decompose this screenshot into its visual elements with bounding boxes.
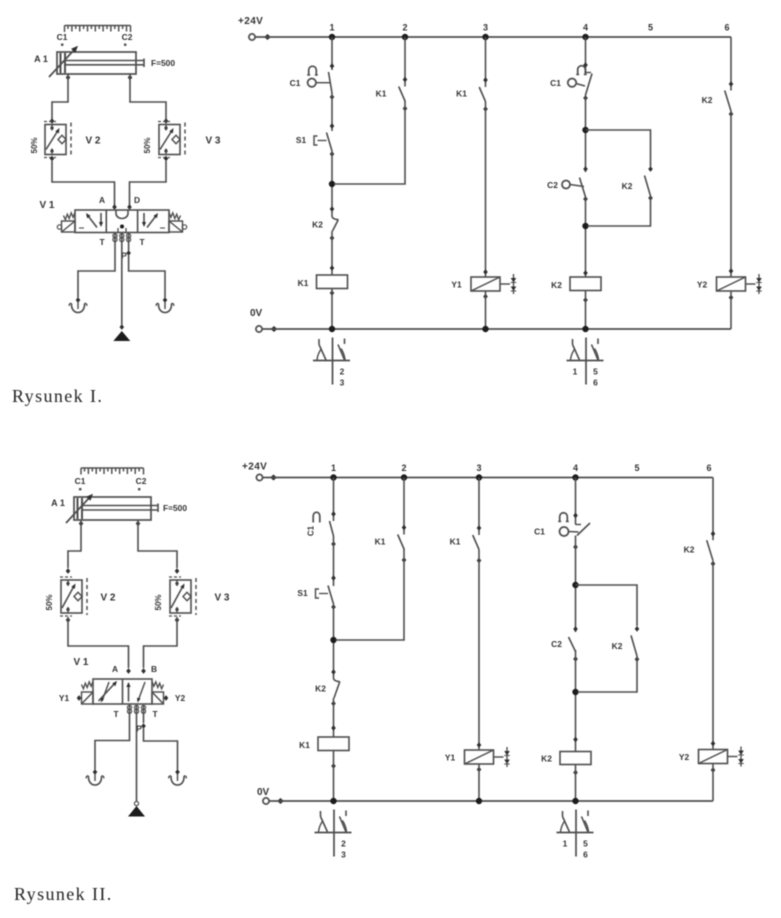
svg-text:C1: C1 <box>75 476 86 486</box>
svg-text:T: T <box>152 709 158 719</box>
relay coil K2 <box>570 277 601 291</box>
valve V1 port A connection <box>112 204 117 210</box>
0V terminal <box>256 326 262 332</box>
0V terminal <box>263 798 269 804</box>
svg-text:C1: C1 <box>550 78 561 88</box>
node K2 coil top <box>573 737 578 743</box>
node Y2 bottom <box>729 295 734 301</box>
node Y2 pilot (figure II) <box>164 695 169 701</box>
wire to right exhaust (figure II) <box>144 729 178 770</box>
port P connection <box>126 250 131 256</box>
svg-text:K2: K2 <box>612 641 623 651</box>
cylinder A1 body <box>57 52 136 74</box>
svg-text:F=500: F=500 <box>151 58 175 68</box>
node K1 contact bottom (column 3) <box>477 558 482 564</box>
node pressure source <box>120 324 125 330</box>
junction 0V rail column 3 <box>482 326 488 332</box>
relay contact K1 NO (column 3) <box>479 87 485 102</box>
node Y2 top <box>729 268 734 274</box>
node Y1 top <box>477 742 482 748</box>
svg-text:C1: C1 <box>307 525 316 536</box>
junction 0V rail column 3 <box>476 798 482 804</box>
svg-text:1: 1 <box>573 367 578 377</box>
valve V1 left return spring <box>64 213 76 220</box>
wire T right to exhaust <box>128 233 130 251</box>
wire T left to exhaust (figure II) <box>95 706 130 770</box>
wire P to pressure source (figure II) <box>136 706 138 802</box>
node K1 contact bottom (column 2) <box>402 557 407 563</box>
wire column 1 between C1 and S1 <box>331 93 333 131</box>
node C1 top (column 4) <box>583 62 588 68</box>
junction rail column 1 <box>329 34 335 40</box>
solenoid Y2 indicator <box>728 756 738 758</box>
limit switch C2 contact <box>580 178 586 198</box>
relay contact K2 NO (column 6) <box>725 91 731 112</box>
solenoid Y2 <box>699 750 728 764</box>
svg-text:2: 2 <box>341 839 346 849</box>
node C2 bottom <box>583 196 588 202</box>
pressure source triangle (figure II) <box>128 806 145 817</box>
node K2 bottom <box>330 235 335 241</box>
svg-text:K1: K1 <box>298 278 309 288</box>
node above V3 (figure II) <box>175 568 180 574</box>
svg-text:K1: K1 <box>376 89 387 99</box>
relay contact map under column 1 <box>333 810 335 857</box>
junction rail column 4 <box>572 474 578 480</box>
wire cylinder left port to valve V2 <box>52 74 68 119</box>
node K2 top <box>331 669 336 675</box>
flow control valve V3 (figure II) <box>170 580 191 613</box>
svg-text:V 1: V 1 <box>73 657 88 668</box>
svg-text:2: 2 <box>402 23 407 33</box>
wire T left to exhaust <box>78 233 115 298</box>
cylinder port left connection (figure II) <box>79 521 84 527</box>
svg-text:6: 6 <box>583 850 588 860</box>
svg-text:Rysunek I.: Rysunek I. <box>12 386 103 406</box>
svg-text:D: D <box>134 195 140 205</box>
svg-text:4: 4 <box>573 463 578 473</box>
wire column 1 lower <box>331 231 333 275</box>
node S1 bottom <box>330 151 335 157</box>
svg-text:C1: C1 <box>534 527 545 537</box>
svg-text:K1: K1 <box>299 740 310 750</box>
ruler scale above cylinder A1 (figure II) <box>81 468 144 475</box>
node Y1 pilot (figure II) <box>77 695 82 701</box>
wire column 3 middle <box>478 550 480 751</box>
wire cylinder right port to valve V3 (figure II) <box>138 520 177 568</box>
node C2 top <box>583 166 588 172</box>
node below V2 (figure II) <box>66 617 71 623</box>
svg-text:5: 5 <box>634 463 639 473</box>
relay contact K2 NO (column 5) <box>645 176 651 197</box>
wire to right exhaust <box>129 256 165 298</box>
node C1 top <box>330 63 335 69</box>
node Y1 top <box>483 269 488 275</box>
svg-text:T: T <box>113 709 119 719</box>
svg-text:0V: 0V <box>250 308 263 319</box>
limit switch C1 NC contact (column 4) <box>586 72 592 74</box>
node below V3 <box>164 156 169 162</box>
wire K1 coil to 0V <box>333 751 335 801</box>
node K2 coil bottom <box>573 770 578 776</box>
wire column 4 to branch junction <box>575 536 577 633</box>
directional valve V1 body (5/2, figure II) <box>93 679 152 704</box>
junction 0V rail column 1 <box>329 326 335 332</box>
wire column 5 back to column 4 <box>588 196 651 226</box>
node K2 contact bottom (column 5) <box>648 195 653 201</box>
relay contact K2 NC (column 1) <box>332 217 338 220</box>
limit switch C1 contact (column 1) <box>330 521 334 536</box>
junction rail column 3 <box>476 474 482 480</box>
wire Y2 to 0V <box>730 291 732 329</box>
svg-text:K2: K2 <box>541 754 552 764</box>
svg-text:2: 2 <box>340 367 345 377</box>
node below V3 (figure II) <box>175 617 180 623</box>
valve V1 right return spring (figure II) <box>152 682 164 689</box>
valve V1 left return spring (figure II) <box>82 682 94 689</box>
wire V3 to valve V1 port B (figure II) <box>144 617 178 668</box>
node C2 top <box>573 626 578 632</box>
node S1 bottom <box>331 604 336 610</box>
adjustment arrow through cylinder (figure II) <box>66 498 89 523</box>
valve V1 right position arrows <box>143 213 145 224</box>
node junction branch top <box>582 127 588 133</box>
wire Y2 to 0V <box>712 764 714 802</box>
cylinder A1 piston <box>60 53 62 73</box>
node C2 bottom <box>573 656 578 662</box>
pushbutton S1 contact <box>327 133 333 152</box>
node K2 contact bottom (column 6) <box>711 561 716 567</box>
svg-text:T: T <box>139 237 145 247</box>
svg-text:V 3: V 3 <box>214 593 229 604</box>
relay contact map under column 4 <box>585 338 587 385</box>
junction rail column 3 <box>482 34 488 40</box>
relay contact map under column 1 <box>332 338 334 385</box>
relay coil K1 <box>317 275 348 289</box>
flow control valve V3 <box>159 125 180 155</box>
valve V1 right position arrows (figure II) <box>128 684 130 702</box>
wire column 6 middle <box>730 111 732 277</box>
svg-text:0V: 0V <box>257 787 270 798</box>
svg-text:50%: 50% <box>30 137 39 153</box>
relay contact map under column 4 <box>575 810 577 857</box>
flow control valve V2 (figure II) <box>61 580 82 613</box>
svg-text:2: 2 <box>401 463 406 473</box>
junction 0V rail column 4 <box>582 326 588 332</box>
svg-text:A 1: A 1 <box>34 54 48 64</box>
wire T right upper (figure II) <box>143 706 145 723</box>
svg-text:6: 6 <box>724 23 729 33</box>
wire column 1 middle <box>333 604 335 679</box>
svg-text:Y2: Y2 <box>175 693 186 703</box>
valve V1 left position arrows <box>87 215 97 228</box>
valve V1 bottom port connections <box>113 234 117 238</box>
svg-text:50%: 50% <box>45 594 54 610</box>
valve V1 port B connection <box>127 204 132 210</box>
exhaust silencer right (figure II) <box>177 774 179 781</box>
node pressure source (figure II) <box>134 801 138 805</box>
node S1 top <box>330 123 335 129</box>
node junction column 1/2 <box>330 637 336 643</box>
wire cylinder left port to valve V2 (figure II) <box>68 520 81 568</box>
svg-text:C1: C1 <box>290 78 301 88</box>
svg-text:A 1: A 1 <box>51 498 65 508</box>
svg-text:1: 1 <box>563 839 568 849</box>
adjustment arrow through cylinder <box>49 50 74 77</box>
svg-text:Y1: Y1 <box>59 693 70 703</box>
limit switch C2 contact <box>569 637 576 652</box>
node left exhaust (figure II) <box>93 769 98 775</box>
cylinder port right connection (figure II) <box>136 521 141 527</box>
node K2 top <box>330 206 335 212</box>
limit switch C1 NC contact (column 4) <box>576 524 582 526</box>
relay coil K2 <box>560 752 591 765</box>
svg-text:A: A <box>99 195 105 205</box>
svg-text:5: 5 <box>583 839 588 849</box>
wire column 3 upper <box>485 37 487 87</box>
wire K2 coil to 0V <box>575 765 577 802</box>
limit switch C1 head (column 4) <box>560 527 569 536</box>
node K2 contact top (column 6) <box>711 531 716 537</box>
+24V terminal <box>256 474 262 480</box>
svg-text:K1: K1 <box>456 89 467 99</box>
valve V1 port A connection (figure II) <box>126 668 131 674</box>
wire Y1 to 0V <box>478 764 480 801</box>
junction rail column 1 <box>330 474 336 480</box>
node Y1 bottom <box>477 767 482 773</box>
svg-text:K2: K2 <box>315 684 326 694</box>
wire column 6 upper <box>712 478 714 541</box>
node Y2 bottom <box>711 767 716 773</box>
exhaust silencer left (figure II) <box>94 774 96 781</box>
node junction column 1/2 <box>329 181 335 187</box>
relay coil K1 <box>318 737 349 751</box>
node K2 contact bottom (column 5) <box>635 656 640 662</box>
svg-text:Y1: Y1 <box>451 280 462 290</box>
node Y2 top <box>711 741 716 747</box>
wire V2 to directional valve V1 port A <box>52 161 115 205</box>
node Y1 bottom <box>483 294 488 300</box>
0V rail wire <box>269 800 713 802</box>
valve V1 right pilot (solenoid) box <box>169 221 183 232</box>
svg-text:5: 5 <box>648 23 653 33</box>
svg-text:C2: C2 <box>136 476 147 486</box>
svg-text:V 1: V 1 <box>39 200 54 211</box>
valve V1 left pilot (solenoid) box <box>62 221 76 232</box>
svg-text:K1: K1 <box>375 537 386 547</box>
svg-text:B: B <box>151 664 157 674</box>
node above V2 (figure II) <box>66 568 71 574</box>
solenoid Y1 indicator <box>494 756 504 758</box>
svg-text:C2: C2 <box>122 32 133 42</box>
junction 0V rail column 4 <box>572 798 578 804</box>
ruler scale above cylinder A1 <box>65 26 131 33</box>
wire column 1 upper <box>333 478 335 522</box>
wire V2 to valve V1 port A (figure II) <box>68 617 129 668</box>
svg-text:C1: C1 <box>57 32 68 42</box>
node K2 coil top <box>583 270 588 276</box>
cylinder A1 rod (figure II) <box>83 505 158 507</box>
node above V2 <box>50 118 55 124</box>
cylinder A1 body (figure II) <box>74 497 151 520</box>
wire column 1 between C1 and S1 <box>333 536 335 586</box>
svg-text:K2: K2 <box>622 181 633 191</box>
node K1 coil bottom <box>330 290 335 296</box>
node junction branch top <box>572 582 578 588</box>
directional valve V1 body (5/3) <box>75 210 169 233</box>
node S1 top <box>331 575 336 581</box>
limit switch C1 head (column 4) <box>568 79 576 87</box>
svg-text:K2: K2 <box>684 545 695 555</box>
svg-text:A: A <box>112 664 118 674</box>
pushbutton S1 actuator <box>316 589 320 598</box>
solenoid Y2 pilot box (figure II) <box>152 692 164 704</box>
node K1 contact top (column 3) <box>477 525 482 531</box>
wire K1 coil to 0V <box>331 289 333 329</box>
valve V1 bottom port connections (figure II) <box>127 705 131 709</box>
svg-text:+24V: +24V <box>242 462 267 473</box>
cylinder port right connection <box>128 75 133 81</box>
svg-text:4: 4 <box>583 23 588 33</box>
svg-text:V 2: V 2 <box>100 593 115 604</box>
port P connection (figure II) <box>141 723 146 729</box>
svg-text:6: 6 <box>593 378 598 388</box>
limit switch C1 contact (column 1) <box>329 72 333 93</box>
svg-text:3: 3 <box>483 23 488 33</box>
wire column 6 middle <box>712 561 714 750</box>
limit switch C2 head <box>562 181 570 189</box>
node junction branch bottom <box>572 689 578 695</box>
wire column 4 to K2 coil <box>575 650 577 752</box>
svg-text:6: 6 <box>706 463 711 473</box>
svg-text:S1: S1 <box>296 135 307 145</box>
node K1 coil bottom <box>331 763 336 769</box>
svg-text:Y2: Y2 <box>697 280 708 290</box>
svg-text:1: 1 <box>329 23 334 33</box>
valve V1 left position arrows (figure II) <box>99 682 117 701</box>
node left exhaust <box>76 297 81 303</box>
wire Y1 to 0V <box>485 291 487 329</box>
cylinder port left connection <box>66 75 71 81</box>
svg-text:K1: K1 <box>450 537 461 547</box>
junction rail column 4 <box>582 34 588 40</box>
wire P to pressure source <box>121 233 123 325</box>
wire column 2 to junction column 1 <box>336 549 405 641</box>
node C1 bottom <box>331 541 336 547</box>
svg-text:3: 3 <box>476 463 481 473</box>
wire V3 to directional valve V1 port B <box>130 161 167 205</box>
svg-text:T: T <box>99 237 105 247</box>
solenoid Y1 <box>471 277 500 291</box>
node C1 top (column 4) <box>573 513 578 519</box>
svg-text:F=500: F=500 <box>163 503 187 513</box>
svg-text:Y1: Y1 <box>445 753 456 763</box>
node K2 contact top (column 6) <box>729 81 734 87</box>
wire K2 coil to 0V <box>585 291 587 329</box>
exhaust silencer left <box>77 302 79 309</box>
svg-text:3: 3 <box>340 378 345 388</box>
svg-text:S1: S1 <box>297 588 308 598</box>
wire column 1 middle <box>331 151 333 217</box>
flow control valve V2 <box>45 125 66 155</box>
relay contact K1 NO (column 2) <box>399 87 405 102</box>
wire column 2 upper <box>404 37 406 87</box>
solenoid Y2 indicator <box>746 283 756 285</box>
svg-text:C2: C2 <box>547 180 558 190</box>
svg-text:50%: 50% <box>154 594 163 610</box>
node C1 bottom <box>330 94 335 100</box>
+24V rail wire <box>255 36 731 38</box>
node K1 coil top <box>331 725 336 731</box>
relay contact K1 NO (column 2) <box>398 535 404 550</box>
wire column 5 back to column 4 <box>578 656 638 692</box>
wire column 3 upper <box>478 478 480 536</box>
node K2 contact bottom (column 6) <box>729 111 734 117</box>
svg-text:3: 3 <box>341 850 346 860</box>
wire column 2 to junction column 1 <box>334 101 405 185</box>
wire column 6 upper <box>730 37 732 91</box>
svg-text:+24V: +24V <box>238 16 263 27</box>
wire column 4 to K2 coil <box>585 197 587 277</box>
wire column 1 lower <box>333 698 335 737</box>
node K2 coil bottom <box>583 297 588 303</box>
wire column 4 upper <box>585 37 587 73</box>
relay contact K2 NO (column 6) <box>707 540 713 561</box>
relay contact K2 NC (column 1) <box>334 679 340 682</box>
wire column 1 upper <box>331 37 333 70</box>
exhaust silencer right <box>164 302 166 309</box>
svg-text:K2: K2 <box>312 220 323 230</box>
svg-text:Rysunek II.: Rysunek II. <box>14 884 113 904</box>
junction 0V rail column 1 <box>330 798 336 804</box>
svg-text:V 2: V 2 <box>85 136 100 147</box>
wire branch to column 5 <box>576 585 638 626</box>
svg-text:C2: C2 <box>551 639 562 649</box>
junction rail column 2 <box>401 474 407 480</box>
node C1 bottom (column 4) <box>573 544 578 550</box>
node right exhaust (figure II) <box>175 769 180 775</box>
limit switch C1 head <box>308 79 316 87</box>
wire column 4 to branch junction <box>585 95 587 172</box>
svg-text:50%: 50% <box>143 137 152 153</box>
+24V terminal <box>249 34 255 40</box>
label C1 rotated with actuator <box>313 512 320 522</box>
node K1 contact top (column 3) <box>483 77 488 83</box>
node K2 contact top (column 5) <box>648 166 653 172</box>
node K1 contact bottom (column 3) <box>483 106 488 112</box>
0V rail wire <box>262 328 731 330</box>
svg-text:V 3: V 3 <box>205 136 220 147</box>
valve V1 port B connection (figure II) <box>141 668 146 674</box>
node C1 bottom (column 4) <box>583 95 588 101</box>
node right exhaust <box>163 297 168 303</box>
node K2 bottom <box>331 701 336 707</box>
solenoid Y1 indicator <box>500 283 510 285</box>
valve V1 right return spring <box>169 213 181 220</box>
node K2 contact top (column 5) <box>635 626 640 632</box>
svg-text:K2: K2 <box>702 95 713 105</box>
node K1 contact bottom (column 2) <box>403 106 408 112</box>
svg-text:K2: K2 <box>551 280 562 290</box>
svg-text:5: 5 <box>593 367 598 377</box>
cylinder A1 piston (figure II) <box>77 498 79 519</box>
relay contact K2 NO (column 5) <box>631 635 637 656</box>
node above V3 <box>164 118 169 124</box>
node K1 contact top (column 2) <box>402 525 407 531</box>
solenoid Y1 pilot box (figure II) <box>82 692 94 704</box>
+24V rail wire <box>263 477 714 479</box>
node below V2 <box>50 156 55 162</box>
